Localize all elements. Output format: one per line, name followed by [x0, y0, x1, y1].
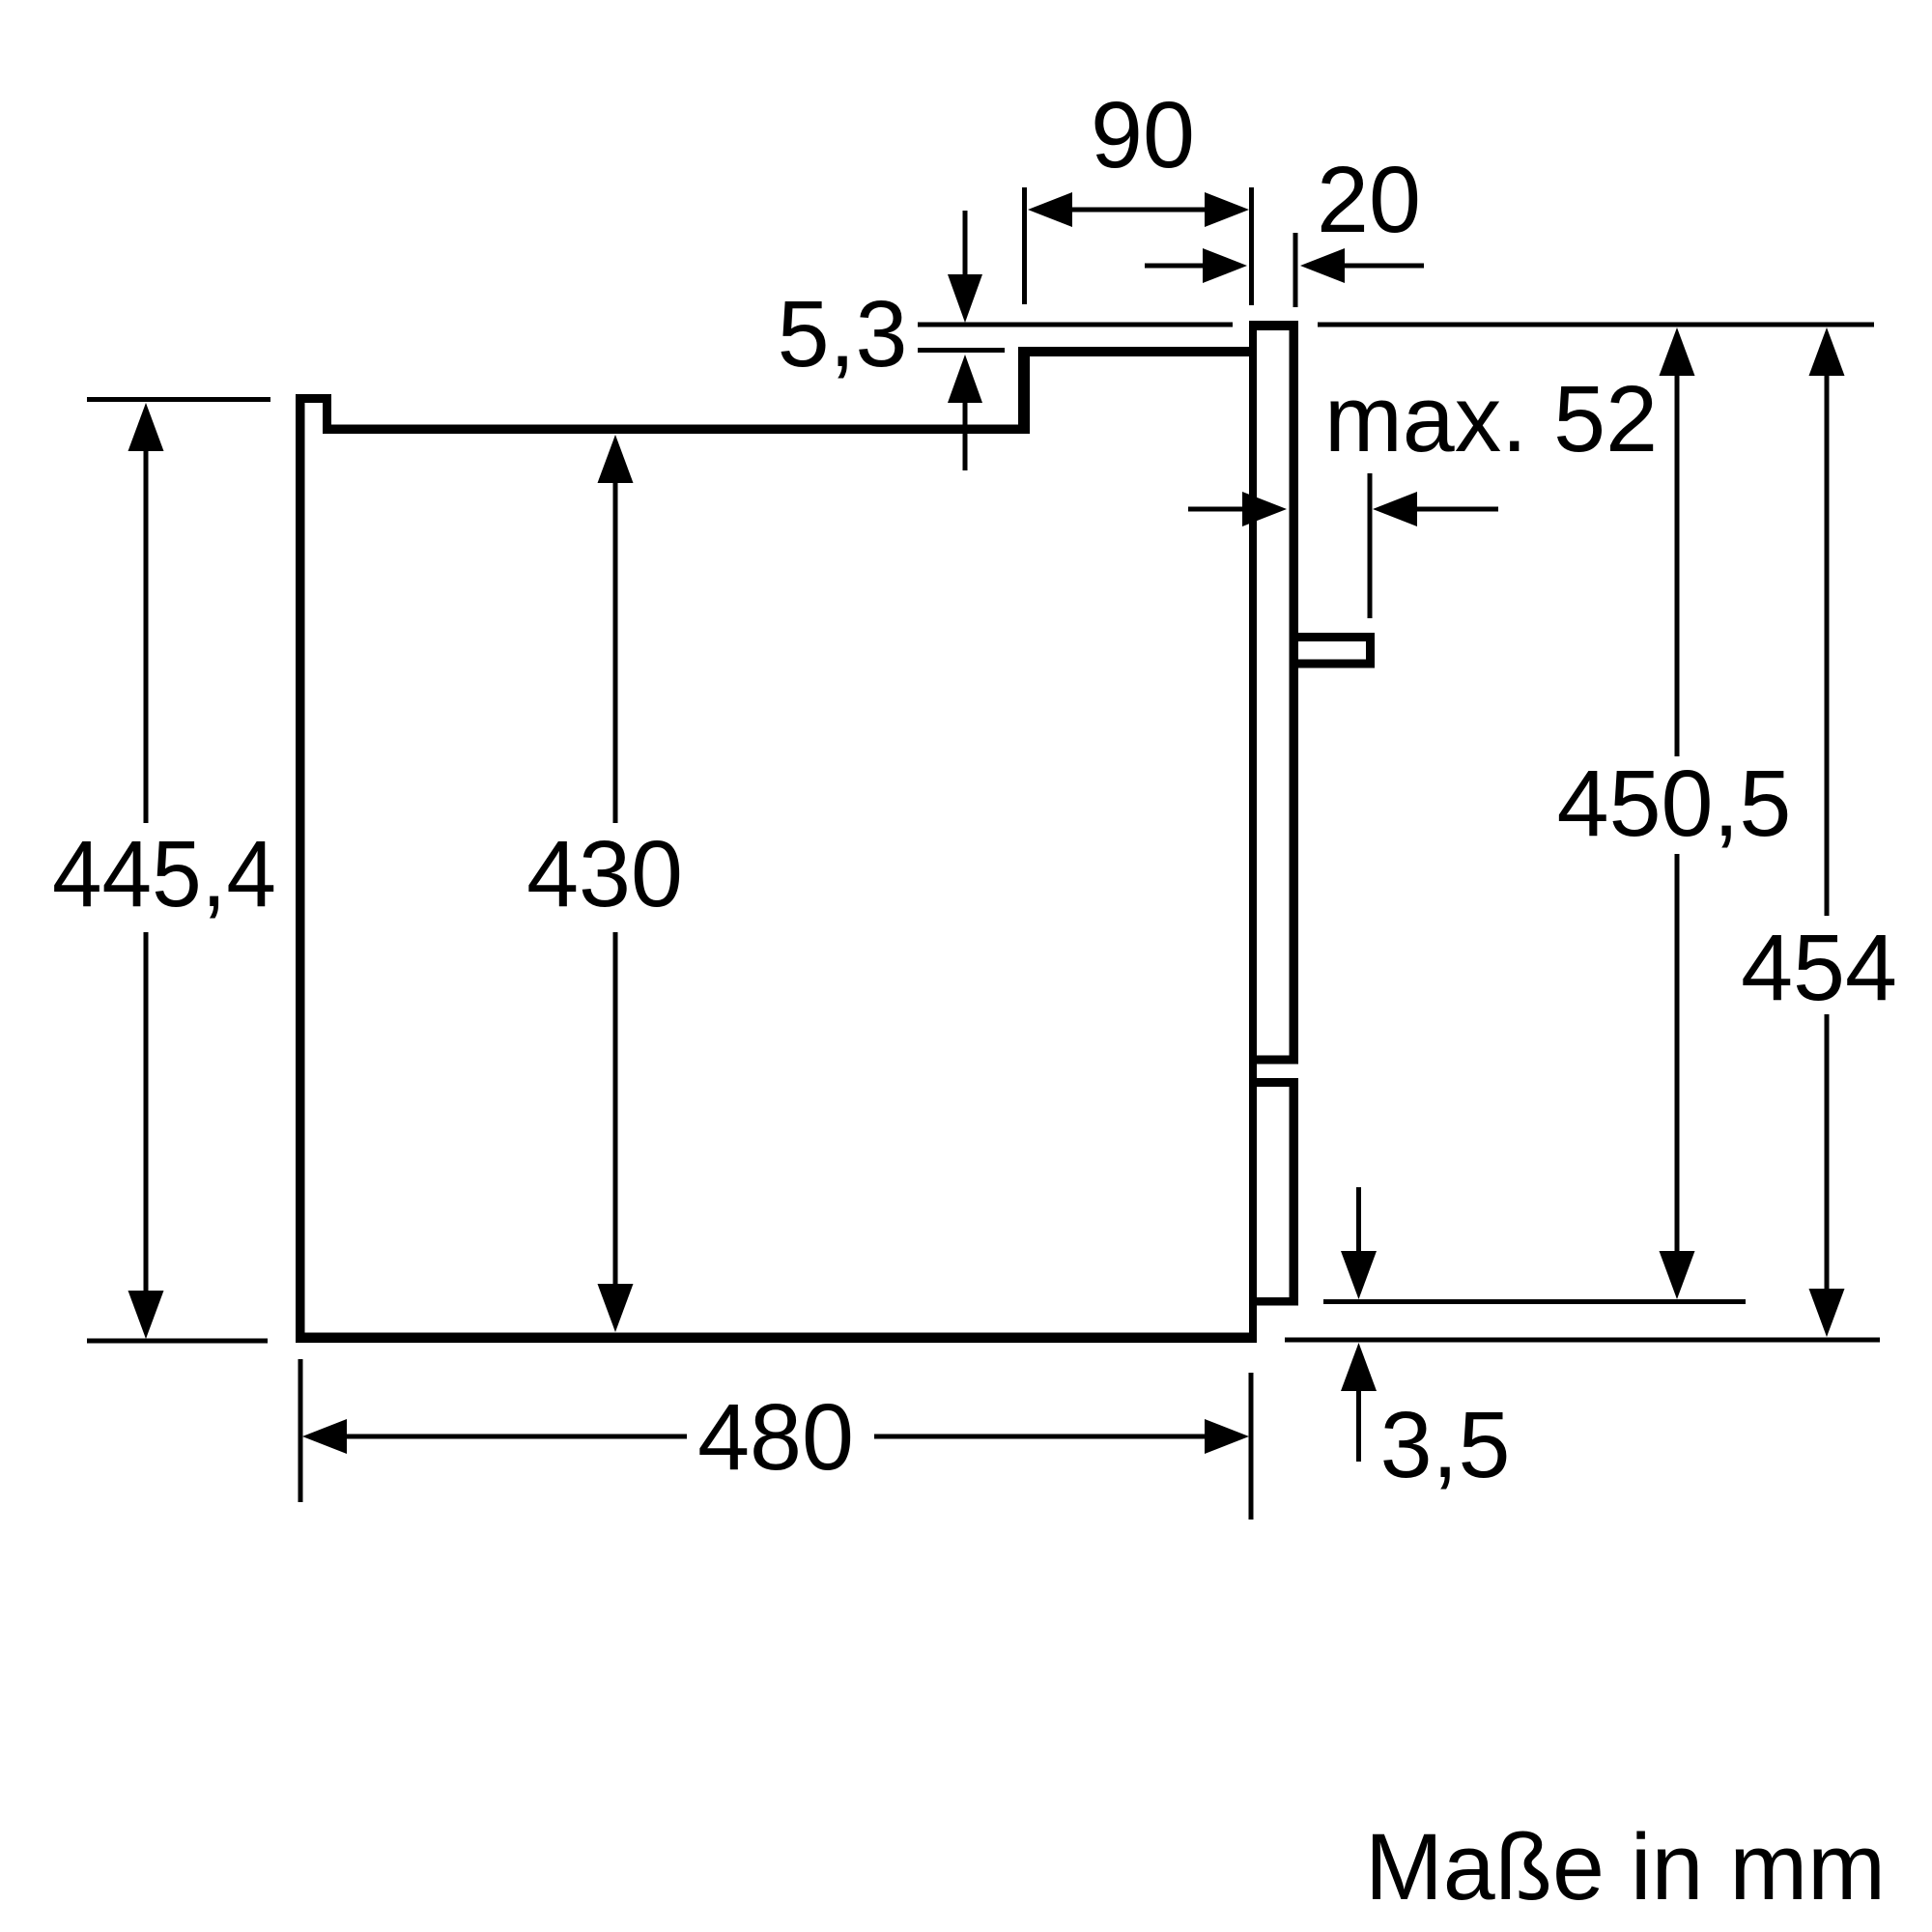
- ext line 5,3 bottom: [918, 348, 1005, 353]
- dim 20 right tail: [1343, 264, 1424, 269]
- svg-text:450,5: 450,5: [1557, 751, 1792, 856]
- dim 450,5 line upper: [1675, 374, 1680, 756]
- svg-text:Maße in mm: Maße in mm: [1365, 1814, 1886, 1919]
- dim 430 arrow down: [598, 1284, 634, 1332]
- knob top line: [1291, 633, 1375, 641]
- front frame left vertical: [1249, 321, 1257, 1343]
- dim 430 line upper: [613, 481, 618, 823]
- dim 20 left arrow: [1203, 248, 1247, 283]
- dim max52 right arrow: [1373, 492, 1417, 526]
- ext line appliance bottom: [1323, 1299, 1746, 1304]
- ext line right top: [1318, 323, 1874, 327]
- dim 5,3 arrow down: [948, 274, 982, 323]
- niche top-left cap: [296, 394, 331, 403]
- niche bottom plate: [296, 1333, 1257, 1344]
- dim 450,5 line lower: [1675, 854, 1680, 1253]
- ext line max52: [1368, 473, 1373, 618]
- worktop top plate: [1018, 347, 1257, 356]
- dim 90 line: [1070, 208, 1207, 213]
- ext line 480 right: [1249, 1373, 1254, 1520]
- dim 20 left tail: [1145, 264, 1205, 269]
- svg-text:max. 52: max. 52: [1324, 366, 1658, 471]
- dim 430 line lower: [613, 932, 618, 1286]
- dim max52 left arrow: [1242, 492, 1287, 526]
- svg-text:3,5: 3,5: [1380, 1392, 1511, 1497]
- ext line 445,4 top: [87, 397, 270, 402]
- ext line 20 right: [1293, 233, 1298, 307]
- svg-text:90: 90: [1091, 82, 1195, 187]
- dim 480 arrow right: [1205, 1419, 1249, 1454]
- niche left wall: [296, 394, 305, 1343]
- ext line 480 left: [298, 1359, 303, 1502]
- ext line 445,4 bottom: [87, 1339, 268, 1344]
- dim 3,5 lower line: [1356, 1389, 1361, 1462]
- dim 454 line upper: [1825, 374, 1830, 916]
- dim max52 left tail: [1188, 507, 1244, 512]
- niche top-left step: [323, 394, 331, 434]
- knob right line: [1366, 633, 1375, 668]
- knob bottom line: [1291, 660, 1375, 668]
- front frame bottom cap: [1249, 1297, 1298, 1306]
- dim 90 arrow right: [1205, 192, 1249, 227]
- svg-text:454: 454: [1741, 915, 1897, 1020]
- dim 5,3 arrow up: [948, 355, 982, 403]
- dim 450,5 arrow down: [1660, 1251, 1695, 1299]
- dim 480 arrow left: [302, 1419, 347, 1454]
- dim 454 line lower: [1825, 1014, 1830, 1291]
- dim 20 right arrow: [1300, 248, 1345, 283]
- ext line 5,3 top: [918, 323, 1233, 327]
- svg-text:20: 20: [1317, 147, 1421, 252]
- svg-text:5,3: 5,3: [778, 281, 908, 386]
- dim 480 line right: [874, 1435, 1207, 1439]
- dim 5,3 lower line: [963, 401, 968, 470]
- dim 3,5 arrow down: [1341, 1251, 1377, 1299]
- dim 480 line left: [345, 1435, 687, 1439]
- worktop step vertical: [1018, 347, 1030, 434]
- niche cavity top line: [323, 425, 1030, 435]
- front frame top cap: [1249, 321, 1298, 330]
- svg-text:480: 480: [697, 1384, 854, 1490]
- dim 445,4 line lower: [144, 932, 149, 1292]
- dim 445,4 arrow up: [128, 403, 164, 451]
- dim 454 arrow up: [1809, 327, 1845, 376]
- dim 3,5 upper line: [1356, 1187, 1361, 1253]
- ext line 90 left: [1022, 187, 1027, 304]
- ext line 90 right: [1249, 187, 1254, 305]
- svg-text:445,4: 445,4: [52, 821, 276, 926]
- svg-text:430: 430: [526, 821, 683, 926]
- front frame right vertical lower: [1290, 1078, 1299, 1306]
- dim max52 right tail: [1415, 507, 1498, 512]
- dim 3,5 arrow up: [1341, 1343, 1377, 1391]
- dim 90 arrow left: [1028, 192, 1072, 227]
- front frame right vertical upper: [1290, 321, 1299, 1064]
- ext line niche bottom right: [1285, 1338, 1880, 1343]
- dim 454 arrow down: [1809, 1289, 1845, 1337]
- dim 445,4 line upper: [144, 449, 149, 823]
- dim 445,4 arrow down: [128, 1291, 164, 1339]
- front frame upper joint cap: [1249, 1056, 1298, 1065]
- dim 430 arrow up: [598, 435, 634, 483]
- dim 5,3 upper line: [963, 211, 968, 276]
- dim 450,5 arrow up: [1660, 327, 1695, 376]
- front frame lower joint cap: [1249, 1078, 1298, 1087]
